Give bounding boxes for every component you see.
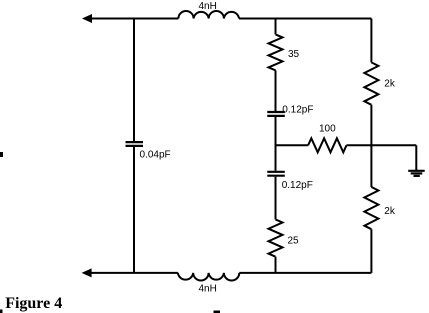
wire middle branch between C3 and R2 bbox=[275, 177, 277, 220]
artifact mark bottom-left corner bbox=[0, 310, 3, 313]
svg-text:0.12pF: 0.12pF bbox=[282, 180, 313, 191]
svg-text:35: 35 bbox=[288, 49, 300, 60]
wire right branch bottom stub bbox=[370, 229, 372, 273]
resistor R5 2k (lower) bbox=[364, 187, 378, 229]
inductor L1 4nH (top) bbox=[178, 11, 239, 19]
wire middle branch between C2 and node bbox=[275, 117, 277, 171]
wire middle branch top stub bbox=[275, 19, 277, 35]
capacitor C2 0.12pF (upper) bbox=[267, 112, 285, 116]
wire bottom rail left segment bbox=[89, 272, 178, 274]
wire middle branch between R1 and C2 bbox=[275, 70, 277, 111]
wire right branch top stub bbox=[370, 19, 372, 63]
svg-text:0.12pF: 0.12pF bbox=[282, 105, 313, 116]
wire top rail left segment bbox=[89, 18, 178, 20]
svg-text:4nH: 4nH bbox=[199, 1, 217, 12]
resistor R2 25 bbox=[269, 219, 283, 256]
artifact mark bottom center bbox=[214, 311, 221, 313]
ground GND bars bbox=[408, 171, 425, 176]
svg-text:2k: 2k bbox=[384, 206, 396, 217]
arrow (top rail, pointing left) bbox=[82, 14, 92, 23]
wire bottom rail right segment bbox=[239, 272, 371, 274]
wire right branch middle bbox=[370, 105, 372, 187]
svg-text:4nH: 4nH bbox=[199, 284, 217, 295]
resistor R1 35 bbox=[269, 34, 283, 70]
wire left branch lower bbox=[133, 147, 135, 273]
capacitor C3 0.12pF (lower) bbox=[267, 172, 285, 176]
wire top rail right segment bbox=[239, 18, 371, 20]
inductor L2 4nH (bottom) bbox=[178, 273, 239, 281]
artifact mark left edge bbox=[0, 152, 3, 157]
wire left branch upper bbox=[133, 19, 135, 142]
svg-text:2k: 2k bbox=[384, 79, 396, 90]
svg-text:0.04pF: 0.04pF bbox=[140, 149, 171, 160]
wire mid horizontal right of R3 to ground drop bbox=[347, 144, 417, 146]
svg-text:Figure 4: Figure 4 bbox=[5, 295, 62, 312]
resistor R3 100 bbox=[308, 138, 346, 152]
resistor R4 2k (upper) bbox=[364, 62, 378, 104]
wire middle branch bottom stub bbox=[275, 257, 277, 273]
svg-text:100: 100 bbox=[319, 123, 336, 134]
svg-text:25: 25 bbox=[288, 235, 300, 246]
wire mid horizontal left of R3 bbox=[276, 144, 309, 146]
capacitor C1 0.04pF bbox=[126, 142, 144, 146]
ground GND stem bbox=[415, 145, 417, 170]
arrow (bottom rail, pointing left) bbox=[82, 268, 92, 277]
